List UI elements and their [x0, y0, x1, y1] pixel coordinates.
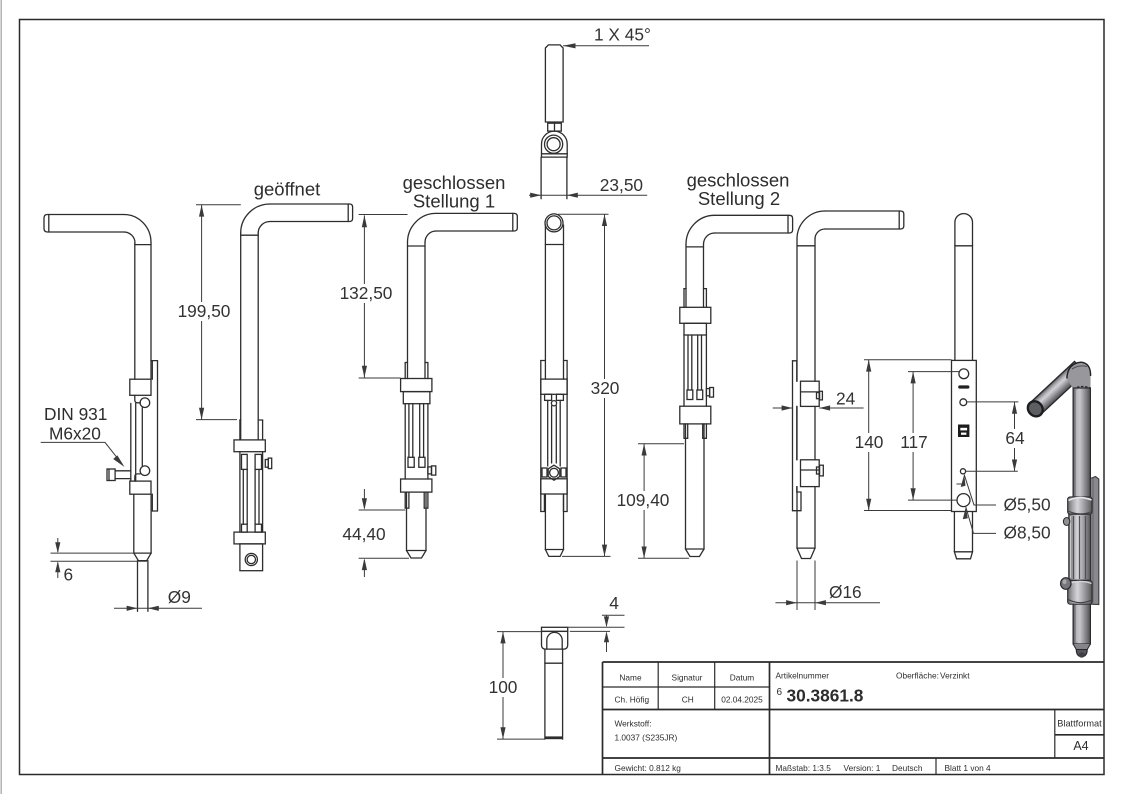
svg-text:Maßstab: 1:3.5: Maßstab: 1:3.5 — [776, 763, 832, 773]
view6 plate edge strip — [792, 361, 794, 511]
view7 dimension 64 — [966, 402, 1019, 471]
svg-text:Verzinkt: Verzinkt — [940, 671, 970, 681]
view6 elbow — [797, 211, 825, 239]
column Datum/Artikelnummer — [769, 662, 771, 775]
view1 handle tube — [44, 215, 124, 233]
view2 handle tube — [270, 204, 353, 222]
view2 rod — [240, 233, 242, 440]
view2 side screw — [265, 460, 268, 468]
svg-text:Stellung 2: Stellung 2 — [698, 188, 780, 209]
svg-text:Datum: Datum — [730, 673, 755, 683]
bottom view rod end cap — [545, 736, 563, 739]
svg-text:Blatt 1 von 4: Blatt 1 von 4 — [945, 763, 992, 773]
3d guide collar bottom — [1068, 580, 1092, 604]
view1 dimension diameter 9 — [114, 607, 202, 609]
3d vertical rod — [1073, 388, 1090, 644]
view4 rod — [544, 225, 546, 379]
svg-text:Oberfläche:: Oberfläche: — [896, 671, 939, 681]
view5 dimension 109,40 — [638, 444, 689, 559]
row Blattformat/A4 — [1055, 734, 1104, 736]
page left scan edge — [0, 0, 2, 794]
row line under signatures — [603, 709, 1105, 711]
view6 rod — [796, 239, 798, 381]
top view lower tube — [540, 157, 542, 199]
top view rod hole circles — [545, 135, 563, 153]
bottom view rod dome — [547, 632, 562, 649]
view5 rail bottom caps — [687, 390, 693, 400]
callout diameter 8,50 — [966, 507, 996, 533]
top view dome housing — [542, 131, 568, 157]
view2 upper guide collar — [234, 440, 265, 452]
view5 lower guide collar — [680, 406, 711, 424]
view4 plate edges — [540, 361, 542, 512]
view4 hex nut — [548, 465, 560, 480]
view3 side screw — [428, 467, 432, 474]
svg-text:Ø9: Ø9 — [168, 587, 191, 607]
view1 upper guide collar — [130, 379, 151, 395]
svg-text:140: 140 — [855, 432, 884, 452]
svg-text:1.0037 (S235JR): 1.0037 (S235JR) — [615, 733, 678, 743]
svg-text:Name: Name — [619, 673, 642, 683]
bottom view bracket body — [542, 631, 568, 649]
view5 plate tabs below — [683, 424, 685, 438]
svg-text:Gewicht: 0.812 kg: Gewicht: 0.812 kg — [615, 763, 682, 773]
dimension 100 — [497, 632, 545, 740]
svg-text:Stellung 1: Stellung 1 — [413, 191, 495, 212]
view2 dimension 199,50 — [196, 205, 241, 420]
view5 upper guide collar — [680, 307, 711, 323]
view6 upper bracket — [801, 381, 820, 406]
svg-text:A4: A4 — [1073, 739, 1088, 753]
view3 plate edges mid — [404, 404, 406, 479]
view3 slot rails — [408, 404, 410, 458]
view2 slot rail top caps — [242, 454, 248, 469]
view1 bolt DIN931 screw — [107, 469, 115, 481]
3d upper pin knob — [1063, 518, 1069, 526]
view7 hole lower small — [960, 469, 965, 474]
view5 plate edges upper — [683, 289, 685, 308]
svg-text:6: 6 — [64, 565, 74, 585]
column Name/Signatur — [657, 662, 659, 710]
svg-text:Ø16: Ø16 — [829, 582, 862, 602]
3d rod highlight — [1076, 390, 1080, 642]
view1 lower guide collar — [130, 481, 151, 494]
view5 collar lower band — [684, 323, 706, 335]
view4 lower guide collar — [541, 479, 567, 494]
column Deutsch/Blatt — [935, 758, 937, 775]
view1 upper latch hook — [135, 395, 140, 403]
view7 hole bottom — [957, 494, 970, 507]
svg-text:geöffnet: geöffnet — [254, 179, 321, 200]
view1 DIN 931 M6x20 note — [44, 404, 107, 444]
view3 plate tabs below — [404, 492, 406, 508]
view7 hole upper small — [960, 399, 967, 406]
view5 rod — [685, 244, 687, 307]
bottom view bracket top plate — [542, 627, 568, 631]
view6 dimension 24 — [773, 407, 864, 409]
view7 rod dome top — [955, 214, 973, 246]
view3 lower guide collar — [401, 479, 432, 492]
3d lower screw knob — [1061, 578, 1071, 590]
svg-text:6: 6 — [777, 687, 783, 698]
view3 rod — [407, 242, 409, 378]
view3 handle tube — [436, 213, 517, 231]
svg-text:CH: CH — [682, 695, 694, 705]
view1 rod upper — [134, 243, 136, 379]
svg-text:320: 320 — [591, 378, 620, 398]
view6 handle tube — [825, 211, 904, 229]
dimension 4 — [568, 615, 625, 652]
row line under Name header — [603, 686, 770, 688]
view7 dimension 140 — [864, 360, 952, 511]
svg-text:44,40: 44,40 — [342, 524, 385, 544]
3d elbow — [1067, 362, 1091, 389]
view6 bolt tip — [797, 547, 815, 549]
view3 dimension 132,50 — [359, 215, 408, 379]
view5 lower bolt rod — [685, 424, 687, 549]
view4 upper guide collar — [541, 379, 567, 394]
svg-text:02.04.2025: 02.04.2025 — [721, 695, 763, 705]
svg-text:Ø8,50: Ø8,50 — [1004, 523, 1051, 543]
view2 bottom ring hole — [245, 553, 257, 565]
svg-text:199,50: 199,50 — [178, 301, 231, 321]
view5 slot rails — [687, 335, 689, 390]
view3 plate edges upper — [404, 363, 406, 379]
column Blattformat — [1054, 710, 1056, 759]
view1 lower bolt rod — [133, 494, 135, 553]
view5 elbow — [686, 215, 715, 244]
svg-text:Version: 1: Version: 1 — [844, 763, 881, 773]
view2 slot rails — [242, 469, 244, 524]
3d mounting plate — [1091, 477, 1099, 605]
view4 pin circle — [551, 401, 556, 406]
view7 slot mark — [958, 385, 969, 388]
view7 rod upper — [954, 246, 956, 361]
view7 mounting plate — [952, 360, 977, 511]
svg-text:Artikelnummer: Artikelnummer — [776, 671, 830, 681]
view5 side screw — [706, 389, 709, 396]
top view rod shaft — [545, 45, 563, 122]
top view bracket tabs — [548, 123, 562, 131]
svg-text:Ch. Höfig: Ch. Höfig — [615, 695, 650, 705]
svg-text:30.3861.8: 30.3861.8 — [787, 686, 864, 706]
title block left line — [602, 662, 604, 775]
view2 lower guide collar — [234, 532, 265, 544]
view4 slot rails — [547, 400, 549, 466]
view2 elbow — [241, 204, 270, 233]
view1 elbow — [124, 215, 151, 243]
view3 lower bolt rod — [406, 492, 408, 550]
view1 guide mid section — [130, 403, 132, 481]
row line above bottom strip — [603, 757, 1105, 759]
view6 dimension diameter 16 — [775, 561, 880, 611]
view4 pin shaft — [551, 406, 553, 463]
view7 dimension 117 — [908, 372, 959, 501]
svg-text:24: 24 — [836, 389, 856, 409]
svg-text:117: 117 — [900, 432, 928, 452]
svg-text:64: 64 — [1005, 428, 1025, 448]
svg-text:100: 100 — [489, 677, 518, 697]
column Signatur/Datum — [714, 662, 716, 710]
view4 lower rod — [544, 494, 546, 550]
title block outer top line — [603, 661, 1105, 663]
view7 rod lower — [953, 512, 955, 552]
svg-text:1 X 45°: 1 X 45° — [594, 25, 651, 45]
3d guide collar top — [1068, 497, 1092, 514]
view4 rail top caps — [545, 394, 552, 400]
chamfer note 1 X 45 — [563, 45, 649, 47]
view3 upper guide collar — [401, 379, 432, 392]
view5 plate edges mid — [683, 335, 685, 406]
view6 upper bracket pin — [817, 393, 820, 399]
title block texts — [615, 671, 1103, 774]
view1 dimension 6 — [51, 538, 148, 578]
3d handle tube — [1025, 361, 1086, 419]
view3 collar lower band — [403, 392, 430, 404]
view2 slot rail bottom caps — [242, 524, 248, 532]
3d bolt tip — [1073, 644, 1090, 650]
view4 handle end circles — [545, 214, 563, 232]
view1 lower latch hook — [140, 466, 150, 476]
svg-text:4: 4 — [609, 593, 619, 613]
view2 plate edges — [239, 420, 241, 440]
svg-text:132,50: 132,50 — [340, 283, 393, 303]
view1 mounting plate edge — [157, 361, 159, 511]
svg-text:Ø5,50: Ø5,50 — [1004, 495, 1051, 515]
svg-text:Blattformat: Blattformat — [1057, 719, 1102, 729]
view3 elbow — [408, 213, 437, 242]
callout diameter 5,50 — [957, 475, 997, 506]
view7 screw head detail — [958, 425, 969, 438]
bottom view handle rod — [544, 649, 546, 739]
3d guide mid slot — [1069, 514, 1091, 580]
svg-text:Signatur: Signatur — [672, 673, 703, 683]
view6 plate bottom step — [793, 487, 802, 511]
svg-text:Deutsch: Deutsch — [892, 763, 923, 773]
svg-text:109,40: 109,40 — [617, 490, 670, 510]
view2 bottom block — [240, 544, 263, 571]
dimension 320 — [558, 214, 611, 556]
view3 rail bottom caps — [408, 457, 414, 467]
view6 lower bracket screw — [817, 467, 820, 474]
view3 dimension 44,40 — [359, 489, 409, 577]
svg-text:DIN 931: DIN 931 — [44, 404, 107, 424]
svg-text:23,50: 23,50 — [600, 175, 643, 195]
svg-text:Werkstoff:: Werkstoff: — [615, 719, 652, 729]
view5 handle tube — [715, 215, 793, 233]
view6 lower bracket — [801, 460, 820, 487]
svg-text:M6x20: M6x20 — [49, 424, 101, 444]
view7 hole top — [959, 369, 969, 379]
dimension 23,50 — [529, 194, 647, 196]
view1 tip pin — [137, 561, 139, 612]
